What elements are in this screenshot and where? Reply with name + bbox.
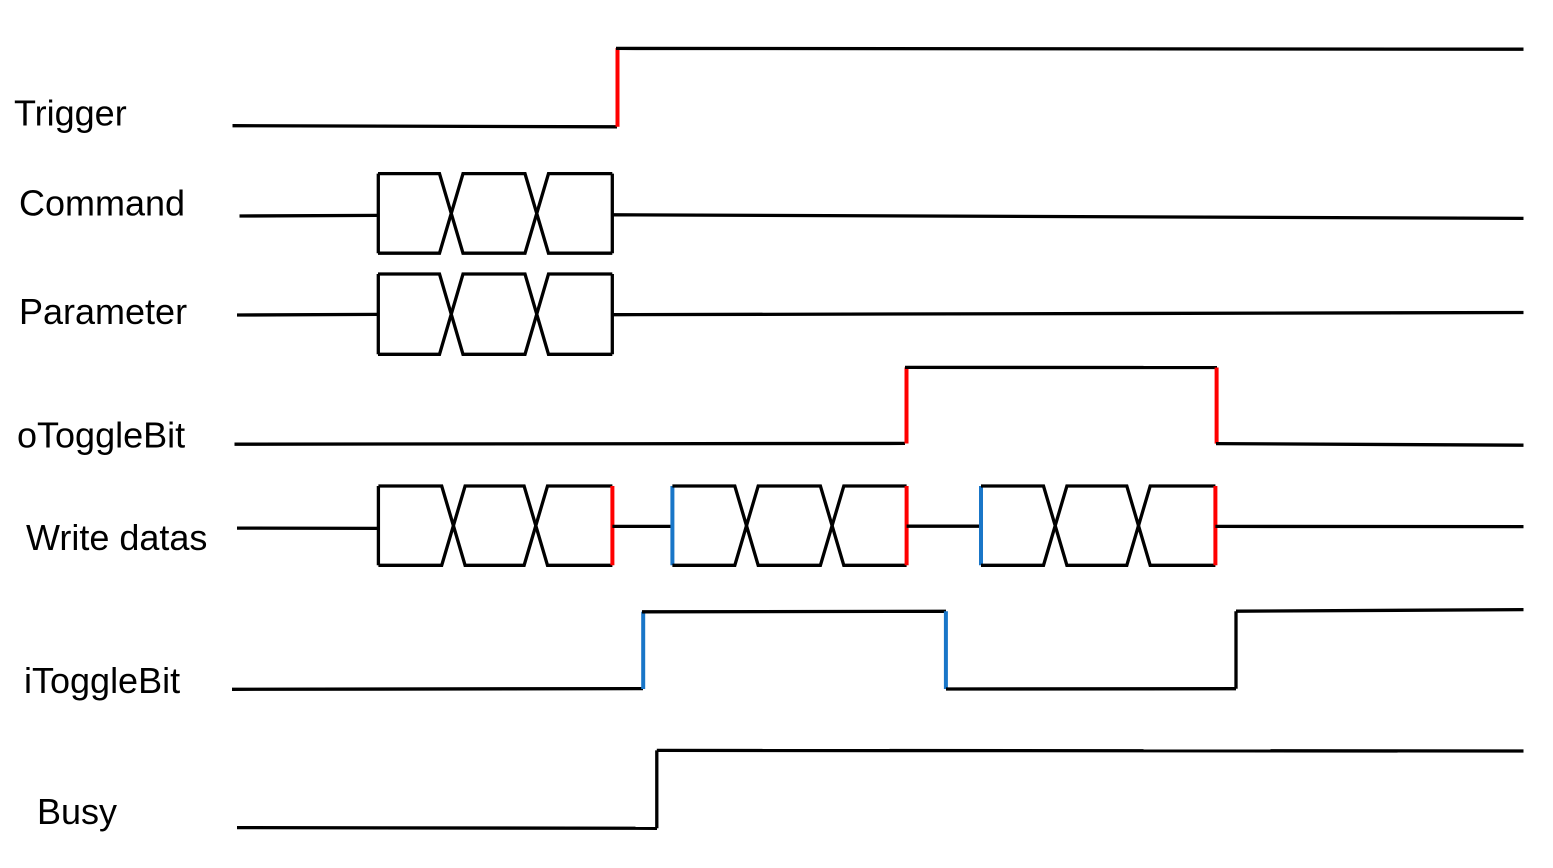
wire Trigger high segment (616, 47, 1524, 51)
wire Trigger low segment (233, 126, 618, 127)
svg-text:Write datas: Write datas (26, 517, 207, 558)
wire Command idle left (240, 214, 379, 218)
wire Write datas idle left (237, 526, 378, 530)
bus Write datas word 2 crosshatch (672, 486, 906, 565)
wire iToggleBit low segment 1 (232, 687, 643, 691)
wire iToggleBit high segment 2 (1236, 610, 1524, 612)
edge Trigger rising (red) (616, 48, 620, 127)
svg-text:oToggleBit: oToggleBit (17, 415, 185, 456)
edge oToggleBit falling (red) (1215, 368, 1219, 444)
wire Command idle right (612, 215, 1523, 219)
edge Write datas word 2 end (red) (905, 486, 909, 565)
wire Busy high segment (657, 749, 1524, 753)
edge Write datas word 1 end (red) (610, 486, 614, 565)
edge Write datas word 2 start (blue) (670, 486, 674, 565)
edge Write datas word 3 start (blue) (979, 486, 983, 565)
svg-text:iToggleBit: iToggleBit (24, 660, 180, 701)
svg-text:Command: Command (19, 183, 185, 224)
edge Write datas word 3 end (red) (1213, 486, 1217, 565)
edge oToggleBit rising (red) (905, 367, 909, 443)
bus Parameter valid-data crosshatch (378, 274, 612, 354)
edge iToggleBit rising 2 (black) (1234, 611, 1237, 689)
wire iToggleBit low segment 2 (946, 687, 1236, 691)
edge iToggleBit falling (blue) (944, 611, 948, 689)
svg-text:Trigger: Trigger (14, 93, 127, 134)
wire oToggleBit high segment (905, 366, 1217, 369)
wire Parameter idle left (237, 313, 378, 317)
svg-text:Busy: Busy (37, 791, 117, 832)
wire Busy low segment (237, 826, 657, 830)
edge iToggleBit rising (blue) (641, 612, 645, 689)
edge Busy rising (black) (655, 750, 658, 828)
bus Write datas word 1 crosshatch (378, 486, 612, 565)
wire iToggleBit high segment 1 (642, 610, 946, 614)
wire Write datas idle right (1215, 525, 1523, 528)
bus Write datas word 3 crosshatch (981, 486, 1215, 565)
wire oToggleBit low segment 2 (1216, 444, 1524, 446)
bus Command valid-data crosshatch (378, 174, 612, 254)
wire Write datas gap 1 (612, 525, 672, 528)
svg-text:Parameter: Parameter (19, 291, 187, 332)
wire Write datas gap 2 (907, 525, 981, 528)
wire oToggleBit low segment 1 (235, 442, 906, 446)
wire Parameter idle right (612, 313, 1523, 315)
